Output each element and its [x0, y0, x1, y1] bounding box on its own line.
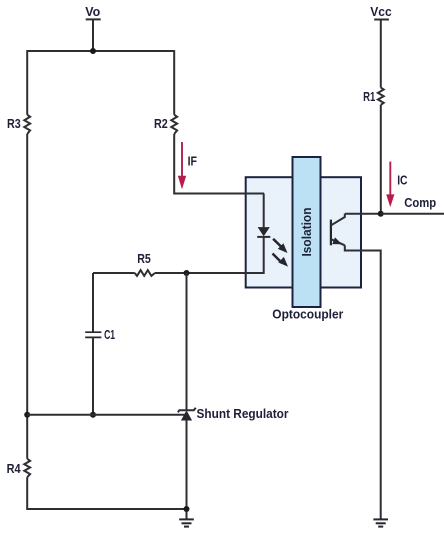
wire R2 to optocoupler LED anode: [174, 134, 264, 194]
resistor R1: [363, 88, 384, 105]
wire collector to Comp junction: [345, 213, 381, 215]
svg-text:C1: C1: [104, 327, 115, 342]
isolation barrier strip: [293, 157, 321, 307]
svg-text:Optocoupler: Optocoupler: [272, 307, 343, 322]
current arrow IC: [386, 162, 408, 208]
resistor R5: [135, 251, 155, 276]
svg-text:Vcc: Vcc: [370, 4, 392, 19]
junction dot C1 bottom node: [90, 412, 96, 418]
phototransistor collector lead: [331, 214, 345, 226]
junction dot bottom rail: [184, 506, 190, 512]
svg-text:R3: R3: [7, 116, 21, 131]
svg-text:Shunt Regulator: Shunt Regulator: [197, 406, 289, 421]
resistor R4: [7, 459, 30, 477]
junction dot Comp node: [378, 211, 384, 217]
current arrow IF: [178, 142, 197, 189]
capacitor C1: [85, 327, 115, 342]
svg-text:Vo: Vo: [85, 4, 100, 19]
shunt regulator (zener) symbol: [178, 408, 196, 421]
wire left rail lower (R4 to bottom wire): [27, 477, 186, 509]
wire lower horizontal node rail: [27, 414, 186, 416]
wire R2 branch vertical upper: [173, 50, 175, 115]
wire shunt to bottom rail: [186, 420, 188, 519]
resistor R3: [7, 115, 30, 134]
junction dot R5 node: [184, 270, 190, 276]
wire C1 branch vertical lower: [92, 337, 94, 414]
svg-text:R2: R2: [154, 116, 168, 131]
phototransistor base bar: [330, 220, 332, 246]
svg-text:Isolation: Isolation: [299, 207, 314, 256]
ground symbol left: [179, 519, 194, 526]
wire emitter to ground rail: [345, 245, 381, 519]
svg-text:R1: R1: [363, 89, 375, 104]
junction dot left rail at lower node: [24, 412, 30, 418]
wire R5 left segment from C1 branch: [93, 272, 135, 274]
svg-text:Comp: Comp: [404, 195, 436, 210]
node Vo terminal: [85, 4, 100, 51]
wire R5 right segment to node: [155, 272, 187, 274]
LED light arrow 1: [273, 239, 287, 253]
wire left rail upper (top wire to R3): [26, 50, 28, 115]
phototransistor emitter lead with arrow: [331, 237, 345, 245]
wire left rail middle (R3 to lower node): [26, 134, 28, 459]
optocoupler body box: [246, 177, 361, 287]
ground symbol right: [373, 519, 388, 526]
node Vcc terminal: [370, 4, 392, 87]
svg-text:IC: IC: [397, 173, 408, 188]
wire C1 branch vertical upper: [92, 273, 94, 332]
resistor R2: [154, 115, 177, 134]
wire Comp output: [381, 213, 444, 215]
LED cathode wire to R5 node: [187, 237, 264, 273]
svg-text:R5: R5: [137, 251, 151, 266]
wire shunt branch vertical from R5 node: [186, 273, 188, 410]
junction dot at Vo tap: [90, 48, 96, 54]
svg-text:IF: IF: [188, 154, 197, 169]
LED anode wire inside optocoupler: [263, 194, 265, 228]
LED light arrow 2: [273, 254, 289, 267]
svg-text:R4: R4: [7, 461, 22, 476]
LED diode of optocoupler: [257, 227, 270, 237]
wire R1 to Comp junction: [380, 105, 382, 214]
wire top horizontal from R3 branch to R2 branch: [27, 50, 174, 52]
